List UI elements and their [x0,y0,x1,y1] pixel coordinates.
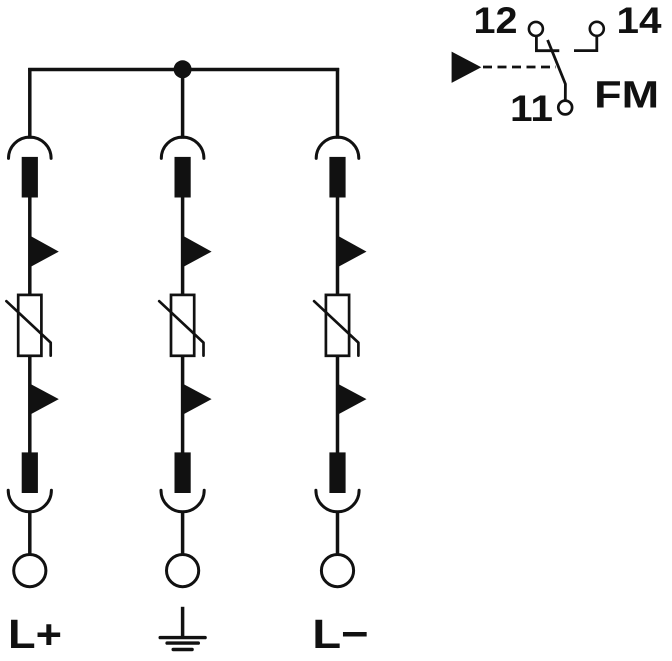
wire branch L+ top vertical [28,68,32,139]
wire branch PE top vertical [181,70,185,139]
branch L+ : thermal disconnect arrow (lower) [31,384,59,414]
wire branch L- top vertical [336,68,340,139]
branch PE : varistor characteristic stroke [159,301,203,355]
branch PE : wire lower-mid [181,355,185,454]
branch L+ : disconnect element bar (lower) [22,452,38,493]
branch L- : wire bottom [336,511,340,556]
wire bus top horizontal [28,68,339,72]
ground symbol bar 1 [160,636,205,639]
branch PE : socket connector arc bottom [161,490,204,512]
svg-text:L+: L+ [8,611,62,656]
ground symbol bar 3 [173,648,192,651]
svg-text:FM: FM [594,75,659,117]
svg-text:14: 14 [617,0,662,41]
branch L+ : varistor body [18,295,41,356]
branch L+ : terminal circle [14,555,46,587]
branch L+ : thermal disconnect arrow (upper) [31,236,59,266]
branch L+ : socket connector arc bottom [8,490,51,512]
branch L- : plug connector arc top [316,137,359,158]
branch L+ : wire upper-mid [28,197,32,296]
svg-text:11: 11 [510,88,553,129]
branch PE : thermal disconnect arrow (lower) [184,384,212,414]
branch PE : varistor body [171,295,194,356]
FM contact circle 12 [529,22,543,36]
branch L+ : plug connector arc top [9,137,52,158]
svg-text:12: 12 [474,0,518,41]
branch PE : wire bottom [181,511,185,556]
FM contact circle 11 [558,101,572,115]
svg-text:L−: L− [312,611,369,656]
branch PE : disconnect element bar (upper) [175,157,191,198]
branch PE : terminal circle [167,555,199,587]
ground symbol stem [181,607,185,637]
branch L+ : wire lower-mid [28,355,32,454]
FM switch lever [548,40,566,101]
branch PE : disconnect element bar (lower) [175,452,191,493]
branch L- : wire lower-mid [336,355,340,454]
FM dashed actuation link [483,66,556,69]
junction node (bus / PE branch) [174,60,192,78]
branch L+ : disconnect element bar (upper) [22,157,38,198]
branch L+ : wire bottom [28,511,32,556]
FM indicator triangle [452,52,482,83]
branch L- : thermal disconnect arrow (lower) [339,384,367,414]
FM contact circle 14 [590,22,604,36]
branch L- : thermal disconnect arrow (upper) [339,236,367,266]
branch PE : wire upper-mid [181,197,185,296]
branch PE : thermal disconnect arrow (upper) [184,236,212,266]
branch L- : varistor characteristic stroke [314,301,358,355]
branch L- : disconnect element bar (upper) [329,157,345,198]
FM contact 14 terminal [574,36,597,51]
branch L- : terminal circle [321,555,353,587]
branch PE : plug connector arc top [161,137,204,158]
ground symbol bar 2 [167,641,198,644]
branch L+ : varistor characteristic stroke [6,301,50,355]
branch L- : varistor body [326,295,349,356]
branch L- : disconnect element bar (lower) [329,452,345,493]
FM contact 12 terminal [536,36,559,51]
branch L- : socket connector arc bottom [316,490,359,512]
branch L- : wire upper-mid [336,197,340,296]
